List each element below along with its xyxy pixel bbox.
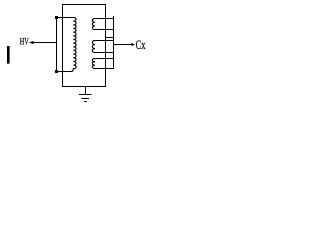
wire primary bottom lead <box>56 71 71 73</box>
wire section tap S1 top <box>95 18 114 20</box>
inductor L1 primary winding <box>71 18 76 72</box>
wire top rail <box>62 4 106 6</box>
ground symbol bar 2 <box>82 98 90 100</box>
wire section tap S1 bottom <box>95 29 114 31</box>
arrowhead at Cx lead <box>131 43 135 46</box>
wire inner left vertical <box>56 17 58 72</box>
ground symbol bar 1 <box>79 94 91 96</box>
inductor L2 secondary section S1 <box>92 19 95 30</box>
wire section tap S3 bottom <box>95 68 114 70</box>
node junction dot top <box>55 16 58 19</box>
arrowhead at HV lead <box>29 41 33 44</box>
wire left outer vertical <box>62 4 64 87</box>
inductor L4 secondary section S3 <box>92 59 95 69</box>
wire bus bar right <box>113 16 115 69</box>
wire section tap S2 top <box>95 40 114 42</box>
wire right main vertical <box>105 4 107 87</box>
inductor L3 secondary section S2 <box>92 41 95 53</box>
svg-text:HV: HV <box>20 38 29 48</box>
wire section tap S2 bottom <box>95 52 114 54</box>
wire HV lead <box>33 42 57 44</box>
ground symbol bar 3 <box>84 101 87 103</box>
wire Cx lead <box>113 44 132 46</box>
wire jog segment <box>105 37 114 39</box>
node junction dot bottom <box>55 70 58 73</box>
svg-text:Cx: Cx <box>136 38 147 52</box>
wire ground stem <box>85 86 87 95</box>
wire section tap S3 top <box>95 58 114 60</box>
text cursor bar <box>7 46 10 64</box>
wire primary top lead <box>56 17 73 19</box>
wire bottom rail <box>62 86 106 88</box>
